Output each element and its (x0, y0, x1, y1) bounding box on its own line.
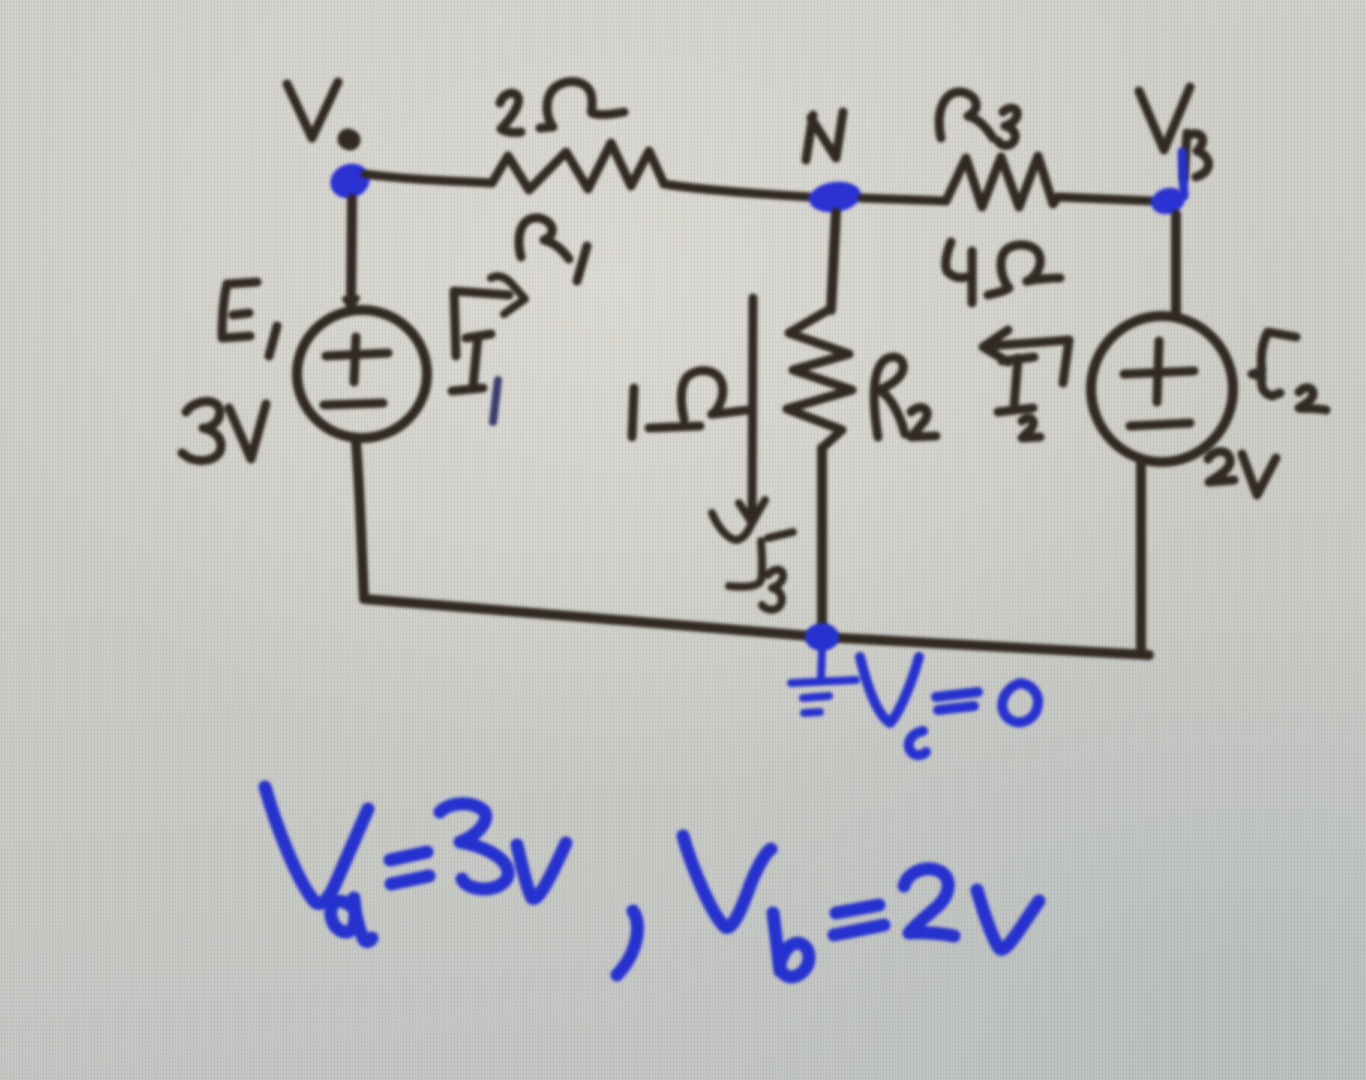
dash of J3 (768, 532, 793, 538)
label Vc = 0 (860, 657, 1038, 755)
resistor R2 (787, 309, 852, 448)
label E2 (1252, 332, 1326, 410)
wire Va to R1 (364, 174, 492, 183)
E2 plus (1124, 341, 1194, 402)
label I2 (998, 357, 1040, 438)
label R3 (939, 92, 1017, 146)
label Vb (1139, 87, 1209, 178)
check mark under arrow (712, 513, 751, 540)
bottom rail right (822, 637, 1149, 655)
blue streak at Vb node (1182, 152, 1184, 196)
junction mark at E1 top (345, 298, 357, 308)
wire Va down to E1 (351, 198, 352, 308)
node Va (325, 158, 374, 204)
wire R2 to bottom node (817, 448, 827, 625)
ground symbol (791, 649, 856, 713)
label N (806, 112, 843, 160)
resistor R1 2ohm (492, 143, 664, 190)
node Vb (1148, 184, 1188, 218)
wire E1 to bottom rail (356, 442, 364, 599)
label 2V (1208, 452, 1276, 496)
node N (807, 179, 863, 216)
label 2ohm (500, 82, 624, 133)
wire R3 to node Vb (1058, 197, 1152, 201)
label I1 (452, 334, 498, 422)
wire Vb down to E2 (1171, 214, 1181, 313)
E1 plus (326, 337, 388, 382)
wire N down to R2 (831, 212, 836, 310)
current arrow I2 (983, 330, 1069, 383)
equation Vb = 2V (683, 836, 1039, 977)
label 4ohm (946, 242, 1060, 303)
current arrow I1 (454, 276, 525, 356)
label 1ohm (632, 371, 750, 437)
label R2 (874, 357, 936, 437)
label R1 (519, 218, 587, 281)
wire R1 to node N (664, 184, 810, 197)
E2 minus (1130, 423, 1190, 426)
current arrow I3 (739, 298, 765, 523)
E1 minus (324, 403, 383, 405)
source E1 (297, 310, 427, 438)
node Vc bottom (805, 623, 839, 651)
resistor R3 (946, 156, 1058, 207)
label J3 (729, 541, 783, 610)
equation Va = 3V (265, 787, 566, 941)
label 3V (182, 401, 266, 460)
source E2 (1091, 316, 1233, 462)
wire E2 to bottom rail (1136, 464, 1146, 654)
wire N to R3 (861, 198, 946, 201)
label Va (top-left) (287, 82, 350, 140)
bottom rail left (364, 599, 822, 637)
label E1 (222, 282, 277, 356)
comma (617, 911, 638, 975)
